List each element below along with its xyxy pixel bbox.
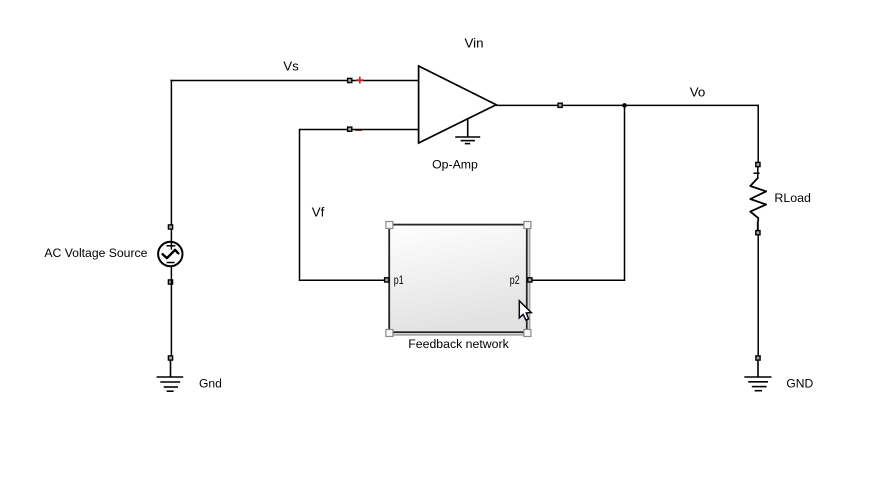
wire junction down to p2 xyxy=(624,105,626,280)
port square Gnd xyxy=(168,356,172,360)
ground Gnd symbol xyxy=(157,361,184,392)
svg-text:p2: p2 xyxy=(510,273,520,287)
port square op-amp + input xyxy=(348,78,352,82)
svg-text:RLoad: RLoad xyxy=(774,191,811,205)
svg-text:AC Voltage Source: AC Voltage Source xyxy=(44,246,147,260)
svg-text:Gnd: Gnd xyxy=(199,377,222,391)
port square RLoad top xyxy=(756,162,760,166)
port square op-amp output xyxy=(558,103,562,107)
svg-text:p1: p1 xyxy=(394,273,404,287)
zigzag xyxy=(750,178,766,222)
port square GND xyxy=(756,356,760,360)
op-amp internal ground xyxy=(455,118,480,144)
wire Vf vertical xyxy=(299,129,301,281)
port square p1 xyxy=(385,278,389,282)
svg-text:Vs: Vs xyxy=(283,59,299,74)
block drop shadow xyxy=(392,228,531,336)
svg-text:GND: GND xyxy=(786,377,813,391)
+ mark RLoad xyxy=(753,172,759,174)
wire Vf bottom horizontal to p1 xyxy=(299,279,385,281)
- stub RLoad xyxy=(757,222,759,231)
svg-text:Feedback network: Feedback network xyxy=(408,337,509,351)
wire source to Gnd xyxy=(170,267,172,357)
polarity mark + (red) at op-amp input xyxy=(356,77,363,84)
port square source top xyxy=(168,225,172,229)
sine squiggle xyxy=(163,250,179,258)
svg-text:Vo: Vo xyxy=(690,85,706,100)
resistor RLoad xyxy=(750,162,766,234)
wire Vo down to RLoad xyxy=(757,105,759,163)
wire Vo output horizontal xyxy=(496,104,759,106)
ac voltage source V1 circle xyxy=(158,229,182,266)
ground GND symbol xyxy=(744,361,771,391)
port square p2 xyxy=(528,278,532,282)
port square source bottom xyxy=(168,280,172,284)
port square RLoad bottom xyxy=(756,231,760,235)
svg-text:Vin: Vin xyxy=(464,35,483,50)
wire Vf to inverting input xyxy=(300,129,419,131)
svg-text:Op-Amp: Op-Amp xyxy=(432,158,478,172)
+ mark inside source xyxy=(167,245,176,247)
selection handle bottom-left xyxy=(386,330,393,337)
svg-text:Vf: Vf xyxy=(312,205,325,220)
wire Vs left vertical xyxy=(170,80,172,227)
selection handle bottom-right xyxy=(524,330,531,337)
- mark inside source xyxy=(167,262,175,264)
selection handle top-right xyxy=(524,222,531,229)
polarity mark - (red) at op-amp inverting input xyxy=(355,129,362,131)
mouse cursor xyxy=(519,301,531,320)
junction node dot xyxy=(622,103,627,108)
wire to p2 horizontal xyxy=(532,279,625,281)
top stub xyxy=(757,167,759,179)
selection handle top-left xyxy=(386,222,393,229)
wire RLoad to GND xyxy=(757,235,759,356)
wire Vs top horizontal xyxy=(170,80,418,82)
port square op-amp - input xyxy=(348,127,352,131)
op-amp U1 triangle xyxy=(419,66,497,143)
